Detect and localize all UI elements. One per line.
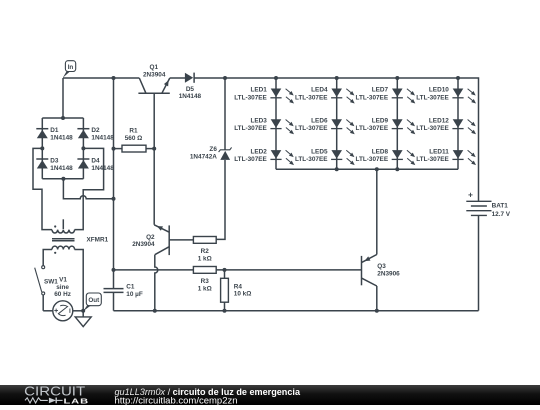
wire Z6 zener to R2 right — [216, 160, 225, 239]
node junction LED column 1 top — [274, 76, 278, 80]
svg-text:1 kΩ: 1 kΩ — [198, 256, 212, 263]
wire bottom rail — [114, 310, 479, 312]
svg-text:LAB: LAB — [64, 396, 90, 405]
svg-text:R2: R2 — [201, 248, 210, 255]
svg-text:D5: D5 — [186, 86, 195, 93]
LED LED4 — [295, 87, 355, 104]
LED LED5 — [295, 148, 355, 165]
node junction R1 left — [112, 147, 116, 151]
svg-text:LED5: LED5 — [311, 148, 328, 155]
LED LED6 — [295, 118, 355, 135]
LED LED2 — [234, 148, 294, 165]
svg-text:D2: D2 — [91, 127, 100, 134]
battery BAT1 — [466, 193, 511, 218]
svg-text:LED10: LED10 — [429, 87, 449, 94]
wire vertical x113 R1 to bridge-minus node — [113, 149, 115, 199]
LED LED7 — [356, 87, 416, 104]
svg-text:R4: R4 — [234, 283, 243, 290]
svg-text:10 µF: 10 µF — [126, 291, 143, 298]
wire LED column 1 — [275, 78, 277, 169]
node junction LED rail col2 — [335, 167, 339, 171]
node junction R3 left — [112, 268, 116, 272]
transformer XFMR1 — [43, 219, 108, 310]
svg-text:LED9: LED9 — [372, 118, 389, 125]
diode D4 — [77, 158, 114, 172]
svg-text:LTL-307EE: LTL-307EE — [416, 125, 449, 132]
node junction R4 bottom rail — [223, 309, 227, 313]
svg-text:Q1: Q1 — [150, 64, 159, 71]
diode D5 — [179, 73, 202, 101]
svg-text:1N4148: 1N4148 — [50, 135, 73, 142]
svg-text:LTL-307EE: LTL-307EE — [416, 94, 449, 101]
svg-text:LTL-307EE: LTL-307EE — [295, 156, 328, 163]
svg-text:LED12: LED12 — [429, 118, 449, 125]
svg-text:1N4742A: 1N4742A — [190, 154, 217, 161]
node junction V1 out — [81, 309, 85, 313]
svg-text:LTL-307EE: LTL-307EE — [234, 94, 267, 101]
node junction LED column 3 top — [395, 76, 399, 80]
svg-text:LED11: LED11 — [429, 148, 449, 155]
node junction bridge right tap — [81, 146, 85, 150]
wire bridge minus out with hop — [63, 179, 113, 199]
svg-text:1N4148: 1N4148 — [91, 165, 114, 172]
resistor R3 — [193, 267, 216, 293]
svg-text:LTL-307EE: LTL-307EE — [295, 125, 328, 132]
wire top rail Q1-emitter to D5 — [170, 77, 187, 79]
wire bridge left tap to transformer secondary left — [33, 148, 52, 229]
wire Q3 collector down to bottom rail — [376, 286, 378, 311]
svg-text:12.7 V: 12.7 V — [492, 211, 511, 218]
LED LED9 — [356, 118, 416, 135]
capacitor C1 — [104, 284, 143, 299]
svg-text:2N3904: 2N3904 — [143, 72, 166, 79]
svg-text:LED1: LED1 — [250, 87, 267, 94]
footer banner — [0, 384, 540, 406]
LED LED10 — [416, 87, 476, 104]
svg-text:LTL-307EE: LTL-307EE — [234, 125, 267, 132]
svg-text:LED8: LED8 — [372, 148, 389, 155]
node junction Z6 top — [223, 76, 227, 80]
svg-text:Q3: Q3 — [377, 263, 386, 270]
transistor Q3 — [362, 255, 401, 287]
node flag Out — [83, 293, 101, 311]
node junction top rail x113 — [112, 76, 116, 80]
wire LED bottom rail — [276, 168, 458, 170]
wire R3 right to Q3 base — [216, 269, 361, 271]
svg-text:XFMR1: XFMR1 — [87, 236, 109, 243]
svg-text:LTL-307EE: LTL-307EE — [356, 156, 389, 163]
wire vertical x113 down to C1 top — [113, 199, 115, 289]
svg-text:560 Ω: 560 Ω — [125, 135, 143, 142]
resistor R2 — [193, 237, 216, 263]
node junction R3-R4 — [223, 268, 227, 272]
diode D1 — [36, 127, 73, 141]
svg-text:LED6: LED6 — [311, 118, 328, 125]
zener diode Z6 — [190, 146, 232, 161]
wire bridge right tap to transformer secondary right — [75, 148, 104, 229]
svg-text:V1: V1 — [59, 276, 67, 283]
node junction LED column 2 top — [335, 76, 339, 80]
svg-text:LTL-307EE: LTL-307EE — [356, 94, 389, 101]
svg-text:1 kΩ: 1 kΩ — [198, 286, 212, 293]
svg-text:LED7: LED7 — [372, 87, 389, 94]
diode D2 — [77, 127, 114, 141]
transistor Q2 — [132, 225, 169, 255]
svg-text:Q2: Q2 — [146, 234, 155, 241]
node junction bridge bottom center — [61, 177, 65, 181]
svg-text:LED2: LED2 — [250, 148, 267, 155]
wire R4 top stub — [224, 270, 226, 278]
ground — [75, 311, 91, 327]
wire top rail left segment — [63, 77, 139, 79]
diode D3 — [36, 158, 73, 172]
wire bridge left branch — [41, 118, 43, 179]
svg-text:LTL-307EE: LTL-307EE — [356, 125, 389, 132]
wire LED column 4 — [457, 78, 459, 169]
svg-text:Out: Out — [88, 297, 100, 304]
wire top rail D5 to right corner with drop to battery — [194, 78, 479, 201]
wire Q2 collector drop with hop over R3 line — [155, 255, 158, 311]
node junction Q2 collector bottom rail — [153, 309, 157, 313]
node junction LED rail col3 — [395, 167, 399, 171]
wire In-corner down to bridge top — [62, 78, 64, 118]
svg-text:R3: R3 — [201, 278, 210, 285]
LED LED3 — [234, 118, 294, 135]
svg-text:LTL-307EE: LTL-307EE — [234, 156, 267, 163]
wire battery minus down to bottom rail — [478, 215, 480, 310]
svg-text:R1: R1 — [129, 127, 138, 134]
svg-text:D4: D4 — [91, 158, 100, 165]
wire Q3 emitter up to LED rail — [376, 169, 378, 254]
svg-text:LED4: LED4 — [311, 87, 328, 94]
wire Q2 base to R2 left — [169, 239, 193, 241]
wire bridge bottom rail — [42, 178, 83, 180]
wire Z6 top rail to zener — [224, 78, 226, 150]
wire Q1 base down to Q2 emitter corner — [153, 93, 155, 225]
svg-text:2N3906: 2N3906 — [377, 271, 400, 278]
svg-text:1N4148: 1N4148 — [91, 135, 114, 142]
svg-text:LTL-307EE: LTL-307EE — [416, 156, 449, 163]
node junction bridge top center — [61, 116, 65, 120]
svg-text:D3: D3 — [50, 158, 59, 165]
transistor Q1 — [138, 64, 169, 93]
wire LED column 3 — [396, 78, 398, 169]
wire vertical x113 rail to R1 — [113, 78, 115, 149]
svg-text:Z6: Z6 — [209, 146, 217, 153]
svg-text:1N4148: 1N4148 — [179, 93, 202, 100]
LED LED12 — [416, 118, 476, 135]
wire bridge top rail — [42, 117, 83, 119]
svg-text:2N3904: 2N3904 — [132, 241, 155, 248]
svg-text:http://circuitlab.com/cemp2zn: http://circuitlab.com/cemp2zn — [115, 396, 238, 405]
svg-text:C1: C1 — [126, 284, 135, 291]
LED LED1 — [234, 87, 294, 104]
svg-text:sine: sine — [56, 284, 69, 291]
wire R4 bottom stub — [224, 302, 226, 311]
svg-text:10 kΩ: 10 kΩ — [234, 291, 252, 298]
svg-text:In: In — [68, 64, 74, 71]
resistor R4 — [221, 278, 252, 302]
node junction Q3 collector bottom rail — [375, 309, 379, 313]
node junction LED column 4 top — [456, 76, 460, 80]
switch SW1 — [35, 266, 59, 295]
resistor R1 — [122, 127, 146, 152]
node junction R1 right on Q1 base — [152, 147, 156, 151]
node junction Q3 emitter LED rail — [375, 167, 379, 171]
voltage source V1 — [43, 276, 83, 321]
node junction bridge left tap — [40, 146, 44, 150]
svg-text:LED3: LED3 — [250, 118, 267, 125]
LED LED11 — [416, 148, 476, 165]
wire bridge right branch — [82, 118, 84, 179]
svg-text:BAT1: BAT1 — [492, 203, 509, 210]
svg-text:LTL-307EE: LTL-307EE — [295, 94, 328, 101]
wire C1 bottom to bottom rail — [113, 292, 115, 310]
wire R1 right stub — [146, 148, 154, 150]
svg-text:60 Hz: 60 Hz — [54, 291, 71, 298]
LED LED8 — [356, 148, 416, 165]
wire R1 left stub — [114, 148, 123, 150]
svg-text:1N4148: 1N4148 — [50, 165, 73, 172]
svg-text:D1: D1 — [50, 127, 59, 134]
node flag In — [63, 61, 76, 78]
node junction bridge minus x113 — [112, 197, 116, 201]
wire R3 line left segment — [114, 269, 194, 271]
wire LED column 2 — [336, 78, 338, 169]
